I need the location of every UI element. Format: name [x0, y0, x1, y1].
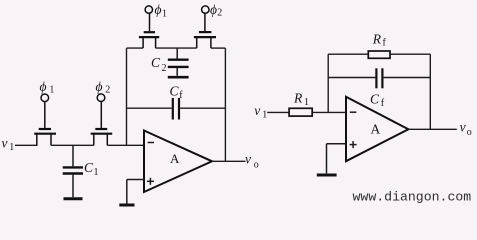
node v1 (right input) [254, 103, 267, 120]
svg-text:o: o [254, 159, 259, 170]
svg-text:ϕ: ϕ [40, 79, 47, 94]
ground at U2 non-inverting input [317, 174, 337, 177]
svg-text:f: f [383, 37, 387, 48]
svg-text:f: f [179, 90, 183, 101]
feedback right vertical wire (right circuit) [429, 54, 431, 129]
capacitor C1 [63, 145, 99, 197]
capacitor C2 [151, 48, 189, 76]
wire non-inverting input to ground [127, 180, 144, 204]
output wire of U1 [212, 160, 246, 162]
svg-text:C: C [370, 92, 380, 107]
feedback box left vertical wire [126, 48, 128, 145]
op-amp U1 [144, 131, 212, 193]
svg-text:1: 1 [49, 84, 54, 95]
clock terminal phi1 (top) [145, 2, 167, 20]
transistor M3 (phi1 switch, top row) [139, 13, 159, 48]
svg-text:2: 2 [162, 63, 167, 74]
svg-text:1: 1 [94, 167, 99, 178]
output wire of U2 [408, 128, 456, 130]
wire v1 to R1 [267, 111, 289, 113]
node v1 (left input) [2, 136, 15, 154]
svg-text:ϕ: ϕ [155, 2, 162, 17]
op-amp U2 [346, 97, 408, 161]
svg-text:o: o [467, 127, 472, 138]
svg-text:v: v [245, 151, 251, 166]
svg-text:R: R [293, 91, 303, 106]
svg-text:1: 1 [304, 97, 309, 108]
svg-text:v: v [2, 136, 8, 151]
svg-text:ϕ: ϕ [96, 79, 103, 94]
svg-text:v: v [254, 103, 260, 118]
svg-text:C: C [84, 160, 94, 175]
feedback box right vertical wire [224, 48, 226, 161]
svg-text:1: 1 [162, 9, 167, 20]
feedback box top wire segment 1 [127, 47, 144, 49]
svg-text:A: A [170, 151, 180, 166]
svg-text:f: f [381, 98, 385, 109]
clock terminal phi2 (top) [202, 2, 223, 18]
capacitor Cf (left circuit) [127, 84, 226, 120]
resistor R1 [289, 91, 312, 117]
svg-text:1: 1 [262, 109, 267, 120]
svg-text:2: 2 [105, 84, 110, 95]
svg-text:C: C [151, 55, 161, 70]
svg-text:C: C [170, 84, 180, 99]
wire M1 to M2 [51, 144, 94, 146]
svg-text:R: R [372, 31, 382, 46]
wire M2 to op-amp inverting input [107, 144, 144, 146]
capacitor Cf (right circuit) [328, 68, 430, 109]
node vo (left output) [245, 151, 259, 170]
clock terminal phi1 (bottom) [40, 79, 55, 102]
svg-text:ϕ: ϕ [210, 2, 217, 17]
clock terminal phi2 (bottom) [96, 79, 111, 101]
svg-text:v: v [460, 119, 466, 134]
transistor M4 (phi2 switch, top row) [194, 13, 216, 48]
transistor M2 (phi2 series switch, bottom row) [91, 102, 113, 146]
ground at U1 non-inverting input [119, 204, 134, 207]
feedback left vertical wire (right circuit) [327, 54, 329, 112]
feedback box top wire segment 3 [211, 47, 226, 49]
transistor M1 (phi1 series switch, bottom row) [34, 102, 56, 146]
svg-text:1: 1 [9, 142, 14, 153]
wire v1 to M1 source [15, 144, 38, 146]
ground under C2 [168, 76, 189, 79]
wire non-inverting input of U2 to ground [327, 144, 347, 174]
wire R1 to inverting input of U2 [312, 111, 346, 113]
node vo (right output) [460, 119, 472, 138]
resistor Rf [328, 31, 430, 58]
svg-text:A: A [371, 122, 381, 137]
svg-text:2: 2 [217, 7, 222, 18]
ground under C1 [64, 197, 83, 200]
feedback box top wire segment 2 [156, 47, 197, 49]
svg-text:www.diangon.com: www.diangon.com [353, 190, 472, 205]
